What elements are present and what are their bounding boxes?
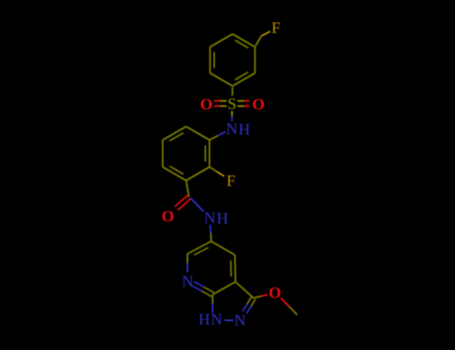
bond C-C carbonyl bbox=[186, 181, 189, 198]
bond N1-N2 bbox=[225, 319, 234, 321]
svg-text:H: H bbox=[199, 311, 211, 328]
svg-text:O: O bbox=[162, 209, 174, 226]
benzene ring R1 (3-fluorophenyl) bbox=[210, 34, 255, 86]
oxygen O methoxy label bbox=[269, 285, 281, 302]
bond N7-C6 bbox=[186, 254, 188, 272]
N7=C7a double bond bbox=[192, 282, 214, 297]
bond C-S bbox=[231, 87, 233, 96]
pyrazole H-N1 label bbox=[199, 311, 223, 328]
benzene ring R2 (2-fluorobenzamide core) bbox=[163, 127, 210, 181]
svg-text:N: N bbox=[182, 273, 194, 290]
bond C-N amide bbox=[191, 198, 204, 211]
S=O right double bond bbox=[237, 101, 249, 106]
C=O amide double bond bbox=[175, 195, 191, 210]
amide N-H label bbox=[204, 210, 229, 227]
fluorine F2 label bbox=[227, 173, 236, 190]
svg-text:F: F bbox=[227, 173, 236, 190]
svg-text:O: O bbox=[269, 285, 281, 302]
bond N-C sulfonamide to ring R2 bbox=[210, 132, 226, 140]
svg-text:H: H bbox=[239, 121, 251, 138]
S=O left double bond bbox=[214, 101, 226, 106]
bond C3a-C3 bbox=[236, 282, 254, 298]
bond C-F2 bbox=[210, 167, 225, 176]
pyridine ring edges bbox=[187, 241, 235, 294]
bond O-CH3 methyl bbox=[281, 298, 298, 315]
bond C3-O methoxy bbox=[254, 295, 268, 298]
oxygen O right label bbox=[252, 96, 264, 113]
bond C-F1 bbox=[255, 31, 270, 46]
svg-text:N: N bbox=[226, 121, 238, 138]
pyridine N7 label bbox=[182, 273, 194, 290]
sulfur S label bbox=[227, 96, 236, 113]
C3=N2 pyrazole double bond bbox=[243, 297, 256, 314]
svg-text:O: O bbox=[200, 96, 212, 113]
svg-text:F: F bbox=[272, 20, 281, 37]
bond N1-C7a bbox=[212, 295, 214, 314]
sulfonamide N-H label bbox=[226, 121, 250, 138]
oxygen O amide label bbox=[162, 209, 174, 226]
svg-text:H: H bbox=[217, 210, 229, 227]
svg-text:O: O bbox=[252, 96, 264, 113]
fluorine F1 label bbox=[272, 20, 281, 37]
bond S-N bbox=[231, 111, 233, 121]
oxygen O left label bbox=[200, 96, 212, 113]
svg-text:S: S bbox=[227, 96, 236, 113]
svg-text:N: N bbox=[211, 311, 223, 328]
svg-text:N: N bbox=[204, 210, 216, 227]
bond N-C amide to pyridine C5 bbox=[209, 225, 212, 242]
svg-text:N: N bbox=[234, 313, 246, 330]
pyrazole N2 label bbox=[234, 313, 246, 330]
